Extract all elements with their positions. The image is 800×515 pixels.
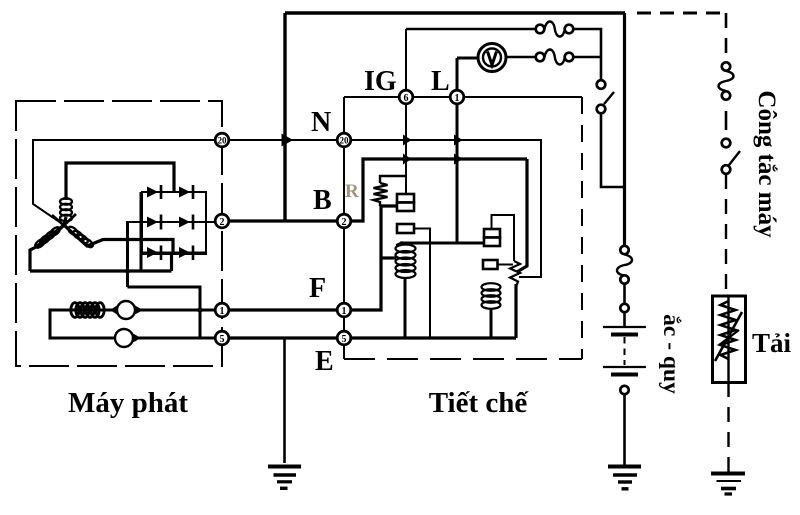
charge lamp [478, 44, 506, 72]
svg-text:Tiết chế: Tiết chế [429, 387, 530, 419]
dashed wire to switch [725, 111, 728, 130]
wire switch S1 to battery column [601, 114, 625, 188]
crossover hops on IG/L verticals [403, 135, 412, 146]
relay1 lower contact [397, 224, 414, 233]
terminal L (regulator) [450, 90, 464, 104]
terminal IG (regulator) [399, 90, 413, 104]
terminal F (regulator) [337, 303, 351, 317]
wire relay2 contact top loop [492, 215, 515, 261]
terminal N (regulator) [337, 133, 351, 147]
wire bridge row 2 (to terminal B) [126, 221, 222, 223]
wire crossover hop at N line x285 [282, 134, 294, 147]
wire N (generator to regulator) [222, 139, 344, 141]
stator phase C wire (lower left) [30, 225, 64, 271]
fuse F1 [536, 25, 545, 34]
svg-text:5: 5 [342, 334, 347, 345]
switch S1 (charge circuit) [597, 80, 606, 89]
svg-text:L: L [431, 66, 450, 97]
stator phase A wire (top) [64, 163, 174, 225]
wire E bus inside regulator [344, 336, 516, 339]
fuse (ignition) circle [722, 62, 730, 70]
relay2 upper contact (points) [484, 229, 500, 238]
relay2 armature spring [510, 261, 520, 287]
diode D5 (row3 left) [147, 246, 161, 261]
ground (battery) [608, 467, 641, 489]
wire relay2 lower contact to arm [498, 264, 514, 266]
field coil (rotor winding) [71, 303, 104, 318]
rectifier bridge frame [142, 192, 206, 254]
terminal B (generator) [215, 214, 229, 228]
svg-text:N: N [311, 107, 331, 138]
fuse (ignition) circle [722, 91, 730, 99]
slip ring 1 (on F line) [117, 301, 135, 319]
enclosure Tiết chế: bottom edge (dashed) [344, 358, 582, 360]
wire IG drop into regulator [405, 29, 407, 194]
resistor R top wire [380, 176, 406, 183]
battery ắc-quy [603, 327, 646, 375]
svg-text:1: 1 [455, 93, 460, 104]
wire E ground drop [283, 338, 286, 463]
terminal F (generator) [215, 303, 229, 317]
wire B riser and top bus inside regulator [344, 159, 527, 221]
wire lamp to fuse F2 [506, 56, 536, 59]
svg-text:E: E [315, 346, 334, 377]
wire L to charge lamp [457, 57, 478, 60]
svg-text:Máy phát: Máy phát [68, 387, 188, 419]
wire IG feed (top) [406, 28, 536, 31]
diode D3 (row2 left) [147, 215, 161, 230]
wire vertical riser from B bus to top line [283, 13, 286, 221]
relay1 upper contact (points) [397, 194, 414, 203]
ground (load) [711, 474, 745, 495]
wire to battery [623, 284, 626, 305]
stator phase C coil [34, 226, 62, 250]
wire top bus dashed extension to ignition switch [637, 12, 726, 15]
svg-text:2: 2 [220, 217, 225, 228]
switch Công tắc máy [722, 139, 731, 148]
generator stator: wire star centre to N [33, 140, 222, 225]
svg-text:Công tắc máy: Công tắc máy [753, 90, 780, 238]
fusible link wave [617, 255, 632, 276]
ground (chassis, centre) [268, 467, 301, 489]
svg-text:20: 20 [218, 136, 228, 146]
node star centre X [52, 214, 76, 236]
wire fuse F2 to switch riser [573, 56, 601, 59]
terminal N (generator) [215, 133, 229, 147]
wire F (generator to regulator) [222, 308, 344, 311]
wire top bus B+ (horizontal) [285, 11, 625, 15]
wire relay1 lower contact to E bus [414, 229, 430, 339]
wire B bus drop to contact arm [517, 159, 527, 272]
dashed wire load to ground [727, 382, 729, 472]
fuse F2 [536, 53, 545, 62]
svg-text:IG: IG [364, 66, 397, 97]
fusible link connector (circle) [620, 246, 628, 254]
svg-text:R: R [345, 181, 359, 202]
wire row2 phase tap [126, 222, 129, 287]
svg-text:2: 2 [342, 217, 347, 228]
diode D4 (row2 right) [179, 215, 193, 230]
wire relay2 coil bottom to E bus [490, 308, 493, 338]
svg-text:5: 5 [220, 334, 225, 345]
node junction at 200,310 [197, 307, 203, 313]
wire L drop into regulator [456, 58, 459, 243]
wire bridge row 3 [142, 252, 207, 254]
wire N inside regulator [344, 140, 541, 277]
svg-text:20: 20 [340, 136, 350, 146]
wire battery to ground [623, 394, 626, 465]
connector circle below battery [620, 386, 628, 394]
stator phase B coil [67, 225, 95, 249]
rotor field circuit: wire F [50, 310, 222, 338]
terminal E (regulator) [337, 331, 351, 345]
enclosure Tiết chế: top edge [344, 96, 582, 98]
diode D2 (row1 right) [179, 185, 193, 199]
connector circle above battery [620, 304, 628, 312]
load Tải (resistor box) [713, 296, 746, 383]
stator phase A coil [60, 198, 72, 221]
svg-text:1: 1 [220, 306, 225, 317]
svg-text:ắc - quy: ắc - quy [658, 314, 684, 394]
svg-text:6: 6 [404, 93, 409, 104]
relay2 lower contact [483, 260, 498, 269]
node junction at 128,271 [125, 268, 130, 273]
wire B (generator to regulator) [222, 219, 344, 222]
relay2 coil (lamp relay winding) [482, 283, 501, 309]
enclosure Tiết chế: right edge (dashed) [581, 97, 583, 359]
wire relay2 arm to E bus [514, 284, 517, 338]
relay1 coil (voltage regulator winding) [396, 245, 416, 279]
wire bridge lower bus [30, 253, 172, 272]
wire battery column vertical [623, 13, 626, 246]
wire F riser to regulator coil [381, 256, 396, 259]
svg-text:F: F [309, 273, 326, 304]
svg-text:1: 1 [342, 306, 347, 317]
wire F riser [344, 206, 397, 310]
stator phase B wire (lower right) [64, 225, 173, 253]
wire neutral return to E [128, 287, 201, 338]
enclosure Tiết chế: left edge [343, 97, 345, 359]
wire fuse F1 to switch riser [573, 29, 601, 80]
terminal B (regulator) [337, 214, 351, 228]
wire relay1 coil bottom to E bus [404, 277, 407, 338]
fuse (ignition) wave [719, 71, 734, 91]
dashed wire switch to load [725, 174, 727, 296]
diode D6 (row3 right) [179, 246, 193, 261]
wire E (generator to regulator) [222, 336, 344, 339]
fusible link connector (circle) [620, 275, 628, 283]
wire relay1 coil top to L node and relay2 contact [400, 242, 484, 245]
svg-text:Tải: Tải [752, 328, 792, 358]
ignition switch column: dashed wire from top [725, 13, 728, 62]
svg-text:B: B [313, 185, 332, 216]
terminal E (generator) [215, 331, 229, 345]
resistor R [374, 183, 388, 206]
enclosure Máy phát (dashed box) [16, 101, 222, 366]
slip ring 2 (on E line) [115, 329, 133, 347]
wire bridge negative bus vertical (left) [140, 192, 143, 271]
diode D1 (row1 left) [147, 185, 161, 199]
